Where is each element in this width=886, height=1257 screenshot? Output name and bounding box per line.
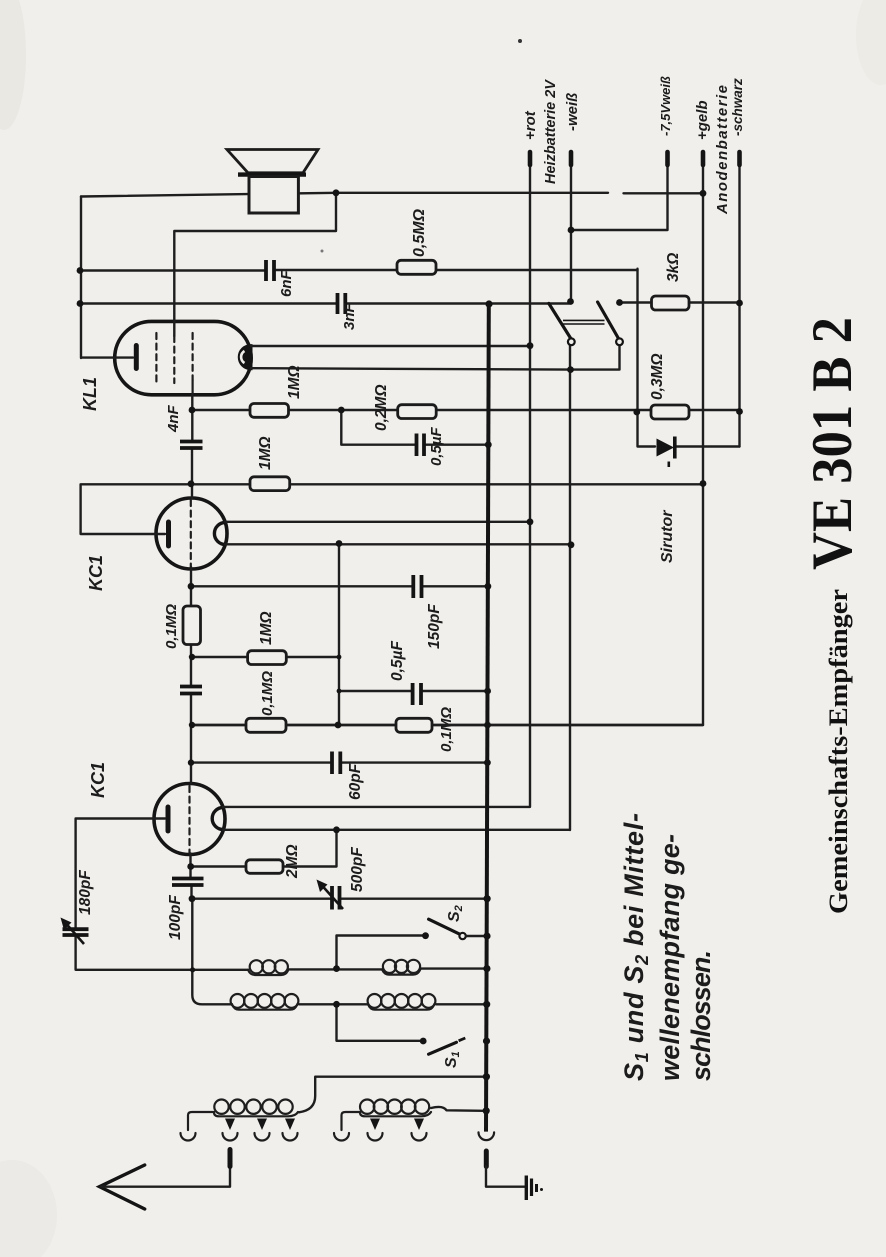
resistor 0,1MOhm vertical bbox=[183, 606, 201, 645]
wire: right antenna coil to bus bbox=[431, 1107, 484, 1111]
capacitor 0,5uF (from 1M row) bbox=[417, 434, 425, 457]
label -7,5V weiss bbox=[658, 76, 673, 136]
svg-text:schlossen.: schlossen. bbox=[686, 950, 716, 1081]
wire: 0,5uF row (y=691) bbox=[339, 690, 488, 692]
svg-text:3kΩ: 3kΩ bbox=[665, 253, 682, 282]
capacitor 4nF (KC1 grid) bbox=[180, 687, 202, 694]
wire: 150pF row bbox=[191, 585, 488, 587]
coil L2b (5 loops) bbox=[368, 994, 436, 1010]
tube KC1#2 cathode bar bbox=[166, 522, 171, 546]
label 3nF bbox=[341, 302, 358, 330]
tube KL1 grid g2 (dashed, screen) bbox=[173, 336, 175, 383]
chassis bus socket cup and plug bbox=[479, 1132, 526, 1186]
label 0,1MOhm bias2 bbox=[438, 707, 455, 752]
mains switch (double pole) bbox=[549, 298, 623, 345]
wire: S1 dropper bbox=[337, 1004, 422, 1041]
label KC1 (2nd) bbox=[86, 555, 106, 591]
label -weiss bbox=[564, 93, 581, 131]
antenna coil right (5 loops with taps) bbox=[342, 1100, 432, 1131]
battery terminal tips bbox=[530, 152, 740, 165]
svg-text:0,5µF: 0,5µF bbox=[428, 427, 445, 466]
label S1 bbox=[443, 1051, 462, 1068]
wire: +rot terminal line down to 1st tube filament bbox=[223, 154, 530, 807]
antenna coil left: tap triangles bbox=[225, 1119, 295, 1131]
tube KC1#2 anode bbox=[214, 523, 225, 545]
svg-text:wellenempfang ge-: wellenempfang ge- bbox=[655, 834, 685, 1081]
resistor 0,3MOhm bbox=[651, 405, 689, 419]
svg-text:2MΩ: 2MΩ bbox=[284, 844, 301, 879]
resistor 0,2MOhm bbox=[398, 405, 437, 419]
capacitor 100pF bbox=[172, 879, 204, 886]
svg-text:180pF: 180pF bbox=[77, 870, 94, 915]
wire: x=339 riser bbox=[338, 544, 340, 726]
label 500pF bbox=[349, 847, 366, 892]
label KC1 (1st) bbox=[88, 762, 108, 798]
tube KC1 (1st stage) body bbox=[154, 784, 225, 855]
svg-text:S1 und S2 bei Mittel-: S1 und S2 bei Mittel- bbox=[619, 813, 652, 1081]
svg-text:100pF: 100pF bbox=[167, 895, 184, 940]
coil L2a (5 loops) bbox=[231, 994, 299, 1010]
wire: speaker to KL1 screen grid bbox=[174, 193, 336, 336]
svg-text:1MΩ: 1MΩ bbox=[258, 611, 275, 645]
wire: 1st tube filament lead + 180pF branch bbox=[76, 819, 248, 970]
tube KL1 cathode bar bbox=[134, 346, 139, 369]
wire: -weiss terminal to switch contact bbox=[570, 154, 572, 301]
label 0,3MOhm bbox=[649, 353, 666, 400]
wire: antenna coil row to bus bbox=[299, 1077, 488, 1113]
label 0,1MOhm bias1 bbox=[259, 671, 276, 716]
wire: tuning row 2 (y=1004.3) bbox=[299, 1003, 488, 1005]
tube KL1 grid g3 (dashed, control grid) bbox=[192, 333, 194, 395]
switch S2 bbox=[422, 919, 486, 939]
svg-text:4nF: 4nF bbox=[165, 404, 182, 433]
wire: +gelb terminal line and 0,1M feed row bbox=[192, 154, 703, 725]
resistor 1MOhm (y657 row) bbox=[248, 651, 287, 665]
label 0,2MOhm bbox=[373, 384, 390, 431]
svg-text:60pF: 60pF bbox=[347, 763, 364, 800]
svg-text:0,5MΩ: 0,5MΩ bbox=[411, 208, 428, 257]
label 4nF (KL1) bbox=[165, 404, 182, 433]
wire: grid chain x=191 (KL1 grid to coils) bbox=[191, 395, 233, 1005]
antenna coil left (5 loops with taps) bbox=[188, 1100, 298, 1131]
label 2MOhm bbox=[284, 844, 301, 879]
svg-text:KC1: KC1 bbox=[88, 762, 108, 798]
svg-text:-weiß: -weiß bbox=[564, 93, 581, 131]
capacitor 180pF tuning with arrow bbox=[61, 918, 89, 945]
switch S1 bbox=[420, 1038, 465, 1055]
tube KL1 grid g1 (dashed) bbox=[155, 333, 157, 382]
capacitor 0,5uF (y691 row) bbox=[413, 683, 421, 705]
wire: 1M plate row (y=483) bbox=[81, 484, 703, 534]
svg-text:KC1: KC1 bbox=[86, 555, 106, 591]
wire: 6nF / 0,5M row bbox=[80, 269, 638, 272]
speck bbox=[321, 250, 324, 253]
antenna coil right: socket cups bbox=[334, 1133, 427, 1141]
svg-text:0,1MΩ: 0,1MΩ bbox=[259, 671, 276, 716]
resistor 1MOhm grid leak KL1 bbox=[250, 404, 289, 418]
capacitor 60pF bbox=[332, 752, 340, 775]
label -schwarz bbox=[730, 78, 745, 136]
tube KL1 anode bbox=[239, 346, 250, 369]
wire: KC1#1 lower row to -weiss drop bbox=[223, 343, 570, 830]
svg-text:0,1MΩ: 0,1MΩ bbox=[163, 604, 180, 649]
antenna coil right: tap triangles bbox=[370, 1119, 424, 1131]
svg-text:Gemeinschafts-Empfänger: Gemeinschafts-Empfänger bbox=[824, 589, 853, 914]
wire: diode output to -schwarz bbox=[676, 445, 740, 447]
antenna symbol and plug bbox=[100, 1150, 231, 1210]
svg-text:6nF: 6nF bbox=[278, 269, 295, 297]
wire: 1M grid leak row (y=410) bbox=[192, 409, 740, 411]
svg-text:1MΩ: 1MΩ bbox=[286, 365, 303, 399]
wire: 3kOhm row from switch to -schwarz bbox=[620, 301, 740, 303]
resistor 0,5MOhm bbox=[397, 260, 436, 274]
svg-text:500pF: 500pF bbox=[349, 847, 366, 892]
label 0,5uF bbox=[428, 427, 445, 466]
wire: KL1 anode row to +rot bbox=[251, 345, 530, 347]
svg-text:KL1: KL1 bbox=[80, 377, 100, 411]
svg-text:-schwarz: -schwarz bbox=[730, 78, 745, 136]
label 1MOhm grid leak bbox=[286, 365, 303, 399]
annotation: S1 und S2 bei Mittelwellenempfang geschlossen bbox=[619, 813, 716, 1081]
tube KC1#2 grid (dashed) bbox=[190, 500, 192, 567]
label 1MOhm plate bbox=[257, 436, 274, 470]
resistor 0,1MOhm bias 2 bbox=[396, 718, 432, 732]
svg-text:+gelb: +gelb bbox=[694, 100, 711, 140]
label S2 bbox=[446, 905, 465, 922]
label 3kOhm bbox=[665, 253, 682, 282]
svg-text:-7,5Vweiß: -7,5Vweiß bbox=[658, 76, 673, 136]
svg-text:1MΩ: 1MΩ bbox=[257, 436, 274, 470]
label 0,5uF (y691) bbox=[389, 641, 406, 681]
speck bbox=[518, 39, 522, 43]
label 150pF bbox=[426, 604, 443, 649]
speaker LS bbox=[227, 150, 318, 214]
svg-text:+rot: +rot bbox=[522, 110, 539, 140]
label Anodenbatterie bbox=[714, 85, 731, 215]
label +rot bbox=[522, 110, 539, 140]
resistor 0,1MOhm bias 1 bbox=[246, 718, 286, 732]
wire: 0,5M to 0,3M riser x=637 bbox=[638, 269, 656, 447]
wire: KL1 lower row to mains switch pivots bbox=[251, 345, 620, 370]
ground symbol bbox=[526, 1176, 543, 1201]
wire: 0,1M grid bias row (y=725) bbox=[192, 724, 703, 726]
wire: left rail (KL1 filament) bbox=[81, 197, 133, 359]
coil L1a (3 loops) bbox=[248, 960, 289, 975]
svg-text:0,2MΩ: 0,2MΩ bbox=[373, 384, 390, 431]
wire: -schwarz terminal line bbox=[738, 154, 740, 447]
label 180pF bbox=[77, 870, 94, 915]
capacitor 6nF bbox=[266, 260, 274, 281]
label Heizbatterie 2V bbox=[543, 79, 559, 184]
wire: -7,5V link bbox=[571, 165, 668, 230]
label 0,1MOhm vertical bbox=[163, 604, 180, 649]
label Sirutor bbox=[659, 510, 676, 563]
wire: 1M row (y=657) bbox=[192, 656, 339, 658]
svg-text:Heizbatterie 2V: Heizbatterie 2V bbox=[543, 79, 559, 184]
coil L1b (3 loops) bbox=[382, 960, 421, 975]
resistor 1MOhm plate KC1#2 bbox=[250, 477, 290, 491]
title Gemeinschafts-Empfaenger bbox=[824, 589, 853, 914]
tube KC1#1 cathode bar bbox=[166, 807, 171, 831]
capacitor 4nF (KL1 grid) bbox=[180, 442, 203, 449]
label +gelb bbox=[694, 100, 711, 140]
resistor 3kOhm bbox=[652, 296, 690, 310]
tube KL1 (output pentode) body bbox=[115, 321, 252, 394]
label KL1 bbox=[80, 377, 100, 411]
capacitor 150pF bbox=[413, 575, 421, 598]
capacitor 500pF trimmer with arrow bbox=[317, 880, 344, 910]
svg-text:0,1MΩ: 0,1MΩ bbox=[438, 707, 455, 752]
svg-text:0,5µF: 0,5µF bbox=[389, 641, 406, 681]
label 1MOhm (y657) bbox=[258, 611, 275, 645]
wire: 500pF row bbox=[192, 898, 488, 900]
svg-text:Anodenbatterie: Anodenbatterie bbox=[714, 85, 731, 215]
label 60pF bbox=[347, 763, 364, 800]
wire: 2M row under 1st tube bbox=[191, 830, 337, 867]
title VE 301 B 2 bbox=[801, 317, 864, 570]
tube KC1#1 grid (dashed) bbox=[188, 786, 190, 853]
wire: 3nF row to switch contact bbox=[80, 302, 569, 304]
svg-text:VE 301 B 2: VE 301 B 2 bbox=[801, 317, 864, 570]
resistor 2MOhm bbox=[246, 860, 283, 874]
wire: speaker row from left rail to +gelb bbox=[81, 193, 703, 197]
wire: tuning row 1 (y=969.8) bbox=[288, 967, 488, 970]
diode Sirutor bbox=[657, 437, 675, 468]
svg-text:3nF: 3nF bbox=[341, 302, 358, 330]
svg-text:150pF: 150pF bbox=[426, 604, 443, 649]
wire: KC1#2 anode row to +rot bbox=[225, 521, 530, 523]
wire: KC1#2 lower row to -weiss bbox=[225, 543, 571, 545]
tube KC1 (2nd stage) body bbox=[156, 498, 227, 569]
label 100pF bbox=[167, 895, 184, 940]
tube KC1#1 anode bbox=[212, 808, 223, 830]
svg-text:0,3MΩ: 0,3MΩ bbox=[649, 353, 666, 400]
wire: 60pF row bbox=[191, 761, 488, 763]
wire: 0,5uF drop from 1M row bbox=[341, 410, 488, 445]
wire: S2 riser bbox=[337, 936, 425, 969]
label 6nF bbox=[278, 269, 295, 297]
ground bus (chassis) bbox=[486, 304, 489, 1132]
svg-text:Sirutor: Sirutor bbox=[659, 510, 676, 563]
antenna coil left: socket cups bbox=[181, 1133, 298, 1141]
capacitor 3nF bbox=[338, 293, 346, 314]
label 0,5MOhm bbox=[411, 208, 428, 257]
